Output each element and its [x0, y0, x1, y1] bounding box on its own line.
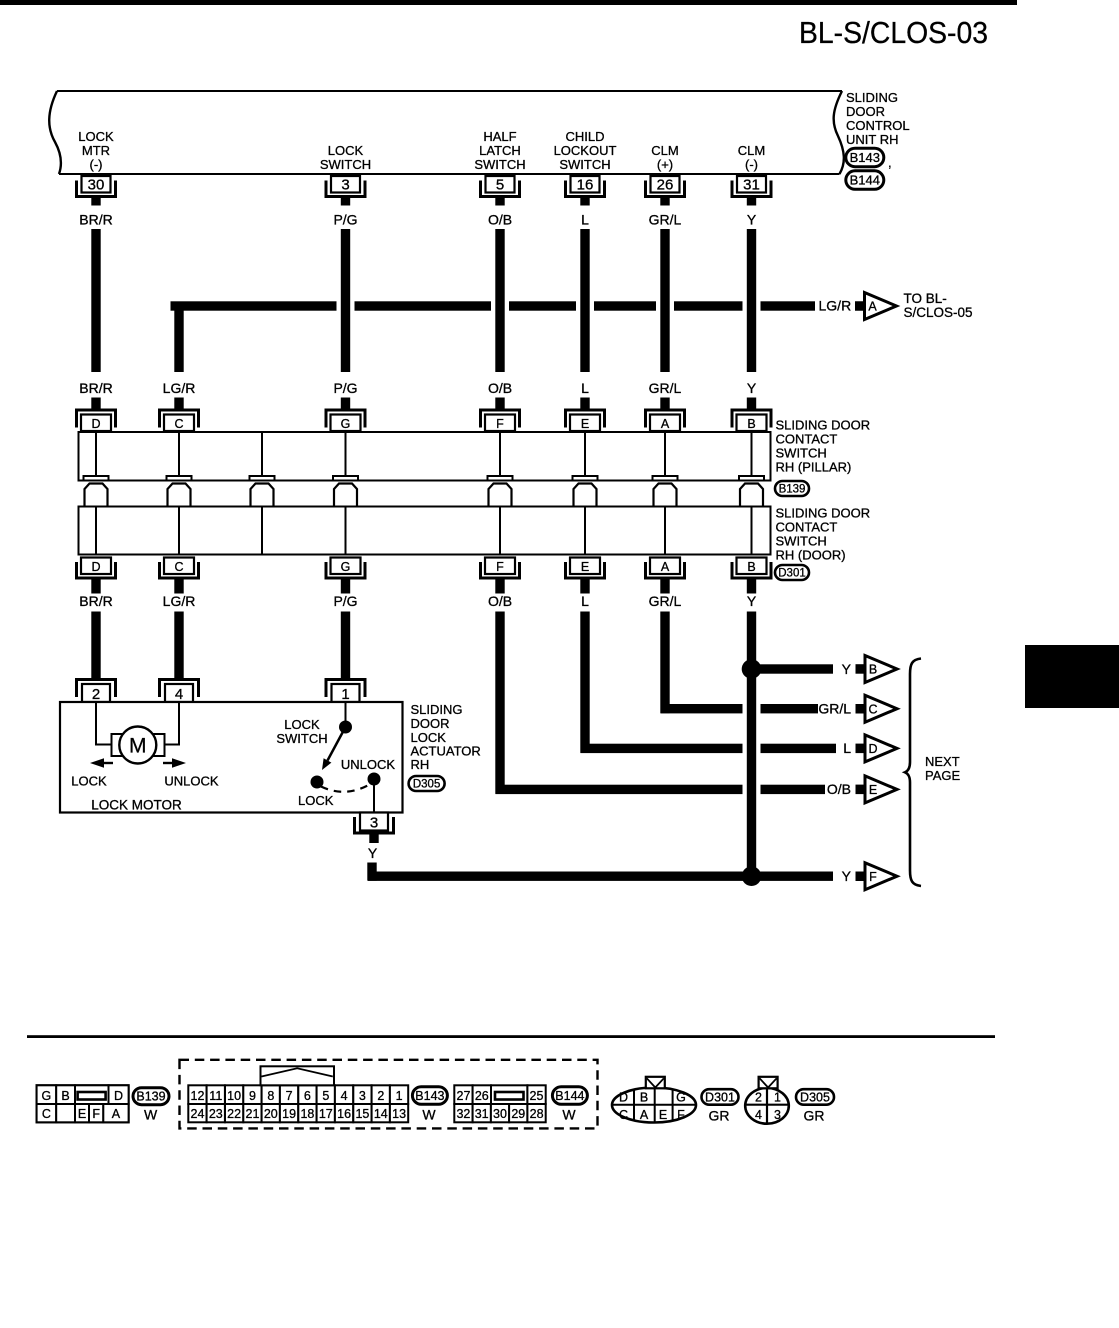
svg-text:B144: B144: [850, 173, 880, 188]
svg-text:G: G: [341, 560, 351, 574]
svg-text:F: F: [92, 1107, 100, 1121]
svg-text:4: 4: [755, 1108, 762, 1122]
svg-text:SWITCH: SWITCH: [276, 731, 327, 746]
svg-text:(-): (-): [90, 157, 103, 172]
svg-text:P/G: P/G: [333, 212, 357, 228]
svg-text:11: 11: [209, 1089, 222, 1103]
svg-text:BR/R: BR/R: [79, 212, 112, 228]
svg-text:C: C: [42, 1107, 51, 1121]
svg-text:SLIDING: SLIDING: [846, 90, 898, 105]
svg-text:(+): (+): [657, 157, 673, 172]
svg-text:SLIDING DOOR: SLIDING DOOR: [776, 418, 871, 433]
svg-text:L: L: [581, 212, 589, 228]
svg-text:(-): (-): [745, 157, 758, 172]
svg-text:30: 30: [493, 1107, 507, 1121]
svg-text:S/CLOS-05: S/CLOS-05: [904, 305, 973, 320]
svg-text:4: 4: [341, 1089, 348, 1103]
svg-text:LOCK MOTOR: LOCK MOTOR: [91, 798, 182, 813]
svg-text:O/B: O/B: [488, 593, 512, 609]
svg-text:1: 1: [341, 686, 349, 703]
svg-text:16: 16: [337, 1107, 351, 1121]
svg-text:MTR: MTR: [82, 143, 110, 158]
svg-text:5: 5: [496, 176, 504, 193]
svg-text:F: F: [677, 1108, 685, 1122]
svg-text:O/B: O/B: [827, 781, 851, 797]
svg-text:P/G: P/G: [333, 380, 357, 396]
svg-text:9: 9: [249, 1089, 256, 1103]
svg-text:W: W: [144, 1107, 158, 1123]
svg-text:2: 2: [755, 1090, 762, 1104]
svg-text:L: L: [581, 593, 589, 609]
svg-text:P/G: P/G: [333, 593, 357, 609]
svg-text:A: A: [661, 417, 670, 431]
svg-text:Y: Y: [747, 212, 757, 228]
svg-text:5: 5: [322, 1089, 329, 1103]
svg-text:G: G: [42, 1089, 52, 1103]
svg-text:D: D: [868, 742, 877, 756]
svg-text:13: 13: [392, 1107, 406, 1121]
svg-text:D301: D301: [778, 568, 806, 580]
svg-text:UNLOCK: UNLOCK: [341, 757, 396, 772]
svg-text:BR/R: BR/R: [79, 593, 112, 609]
svg-text:DOOR: DOOR: [846, 104, 885, 119]
svg-text:28: 28: [530, 1107, 544, 1121]
svg-text:Y: Y: [747, 380, 757, 396]
svg-text:A: A: [868, 300, 877, 314]
svg-text:LOCK: LOCK: [328, 143, 364, 158]
svg-text:RH (DOOR): RH (DOOR): [776, 548, 846, 563]
svg-text:Y: Y: [747, 593, 757, 609]
svg-text:O/B: O/B: [488, 380, 512, 396]
svg-text:Y: Y: [842, 868, 852, 884]
svg-text:A: A: [640, 1108, 649, 1122]
svg-text:A: A: [661, 560, 670, 574]
svg-text:LOCKOUT: LOCKOUT: [554, 143, 617, 158]
svg-text:29: 29: [511, 1107, 525, 1121]
svg-text:B144: B144: [555, 1089, 584, 1103]
svg-text:4: 4: [175, 686, 183, 703]
svg-text:LG/R: LG/R: [163, 593, 196, 609]
svg-text:LG/R: LG/R: [819, 298, 852, 314]
svg-text:F: F: [869, 870, 877, 884]
svg-text:SLIDING DOOR: SLIDING DOOR: [776, 506, 871, 521]
svg-text:LG/R: LG/R: [163, 380, 196, 396]
svg-text:12: 12: [191, 1089, 205, 1103]
svg-text:3: 3: [370, 814, 378, 831]
svg-text:2: 2: [92, 686, 100, 703]
svg-text:C: C: [868, 702, 877, 716]
svg-text:GR: GR: [709, 1108, 730, 1124]
svg-text:Y: Y: [842, 661, 852, 677]
svg-text:LOCK: LOCK: [78, 129, 114, 144]
svg-text:D: D: [114, 1089, 123, 1103]
svg-text:B139: B139: [136, 1090, 165, 1104]
svg-text:RH: RH: [411, 757, 430, 772]
svg-text:Y: Y: [368, 845, 378, 861]
svg-text:1: 1: [396, 1089, 403, 1103]
svg-text:GR/L: GR/L: [649, 212, 682, 228]
svg-text:HALF: HALF: [483, 129, 516, 144]
svg-text:L: L: [843, 740, 851, 756]
svg-text:SWITCH: SWITCH: [559, 157, 610, 172]
svg-text:C: C: [619, 1108, 628, 1122]
svg-text:PAGE: PAGE: [925, 768, 960, 783]
svg-text:SWITCH: SWITCH: [776, 446, 827, 461]
svg-text:17: 17: [319, 1107, 333, 1121]
svg-text:6: 6: [304, 1089, 311, 1103]
svg-text:LOCK: LOCK: [298, 793, 334, 808]
svg-text:3: 3: [774, 1108, 781, 1122]
svg-text:22: 22: [227, 1107, 241, 1121]
svg-text:SWITCH: SWITCH: [474, 157, 525, 172]
svg-text:F: F: [496, 560, 504, 574]
svg-text:26: 26: [475, 1089, 489, 1103]
svg-text:D305: D305: [800, 1090, 830, 1104]
svg-text:O/B: O/B: [488, 212, 512, 228]
svg-text:D: D: [91, 560, 100, 574]
svg-text:CLM: CLM: [651, 143, 678, 158]
svg-text:LOCK: LOCK: [284, 717, 320, 732]
svg-text:D: D: [619, 1090, 628, 1104]
svg-text:RH (PILLAR): RH (PILLAR): [776, 460, 852, 475]
svg-text:18: 18: [300, 1107, 314, 1121]
svg-text:W: W: [562, 1107, 576, 1123]
svg-text:SLIDING: SLIDING: [411, 702, 463, 717]
svg-text:20: 20: [264, 1107, 278, 1121]
svg-text:CLM: CLM: [738, 143, 765, 158]
svg-text:UNLOCK: UNLOCK: [164, 774, 219, 789]
svg-text:23: 23: [209, 1107, 223, 1121]
svg-text:B: B: [747, 560, 755, 574]
svg-text:NEXT: NEXT: [925, 754, 960, 769]
svg-text:GR: GR: [804, 1108, 825, 1124]
svg-text:CONTACT: CONTACT: [776, 520, 838, 535]
svg-text:31: 31: [475, 1107, 489, 1121]
svg-text:DOOR: DOOR: [411, 716, 450, 731]
svg-text:E: E: [581, 417, 589, 431]
svg-text:32: 32: [456, 1107, 470, 1121]
svg-text:BL-S/CLOS-03: BL-S/CLOS-03: [799, 15, 988, 50]
svg-text:CONTACT: CONTACT: [776, 432, 838, 447]
svg-text:LATCH: LATCH: [479, 143, 521, 158]
svg-text:B: B: [640, 1090, 648, 1104]
svg-text:B: B: [869, 663, 877, 677]
svg-text:LOCK: LOCK: [71, 774, 107, 789]
svg-text:19: 19: [282, 1107, 296, 1121]
svg-text:F: F: [496, 417, 504, 431]
svg-text:CONTROL: CONTROL: [846, 118, 910, 133]
svg-text:B: B: [61, 1089, 69, 1103]
svg-text:SWITCH: SWITCH: [320, 157, 371, 172]
svg-text:8: 8: [267, 1089, 274, 1103]
svg-text:UNIT RH: UNIT RH: [846, 132, 898, 147]
svg-text:26: 26: [657, 176, 674, 193]
svg-text:D301: D301: [705, 1090, 735, 1104]
svg-text:24: 24: [191, 1107, 205, 1121]
svg-text:B: B: [747, 417, 755, 431]
svg-text:TO BL-: TO BL-: [904, 291, 947, 306]
svg-text:G: G: [341, 417, 351, 431]
svg-text:C: C: [174, 417, 183, 431]
svg-text:,: ,: [888, 155, 892, 170]
svg-text:SWITCH: SWITCH: [776, 534, 827, 549]
svg-text:2: 2: [377, 1089, 384, 1103]
svg-text:L: L: [581, 380, 589, 396]
svg-text:W: W: [422, 1107, 436, 1123]
svg-text:C: C: [174, 560, 183, 574]
svg-text:D: D: [91, 417, 100, 431]
svg-text:E: E: [581, 560, 589, 574]
svg-text:21: 21: [246, 1107, 260, 1121]
svg-text:B139: B139: [779, 484, 806, 496]
svg-text:M: M: [129, 735, 147, 758]
svg-text:GR/L: GR/L: [818, 701, 851, 717]
svg-text:A: A: [112, 1107, 121, 1121]
svg-text:30: 30: [88, 176, 105, 193]
svg-text:27: 27: [457, 1089, 471, 1103]
svg-text:16: 16: [577, 176, 594, 193]
svg-text:BR/R: BR/R: [79, 380, 112, 396]
svg-text:E: E: [78, 1107, 86, 1121]
svg-text:15: 15: [355, 1107, 369, 1121]
svg-text:GR/L: GR/L: [649, 380, 682, 396]
svg-text:G: G: [676, 1090, 686, 1104]
svg-text:7: 7: [286, 1089, 293, 1103]
svg-text:B143: B143: [850, 150, 880, 165]
svg-text:E: E: [869, 783, 877, 797]
svg-text:CHILD: CHILD: [565, 129, 604, 144]
svg-text:B143: B143: [415, 1089, 444, 1103]
svg-text:31: 31: [743, 176, 760, 193]
svg-text:GR/L: GR/L: [649, 593, 682, 609]
svg-text:E: E: [659, 1108, 667, 1122]
svg-text:25: 25: [530, 1089, 544, 1103]
svg-text:14: 14: [374, 1107, 388, 1121]
svg-text:D305: D305: [413, 779, 441, 791]
svg-text:3: 3: [359, 1089, 366, 1103]
svg-text:3: 3: [341, 176, 349, 193]
svg-text:10: 10: [227, 1089, 241, 1103]
svg-text:1: 1: [774, 1090, 781, 1104]
